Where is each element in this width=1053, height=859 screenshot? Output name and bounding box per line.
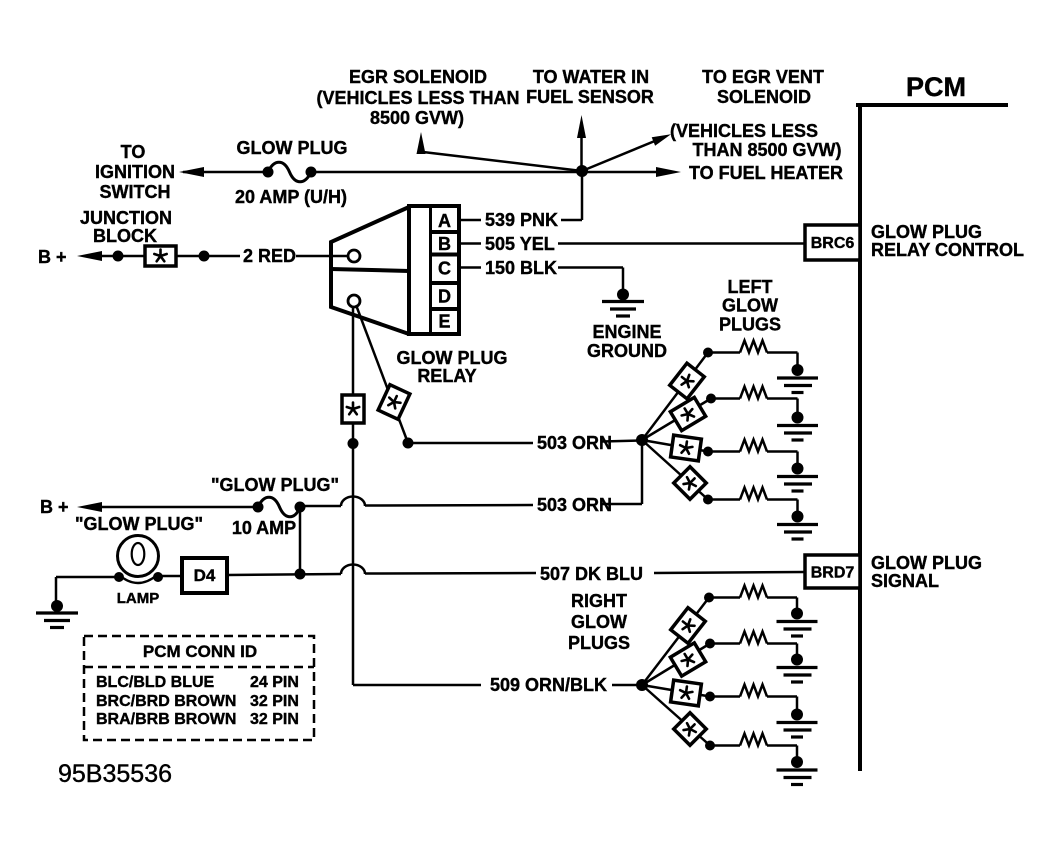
lamp (118, 536, 159, 577)
glow plug R4 (705, 741, 715, 751)
ground lamp (51, 600, 63, 612)
wire pin C 150 BLK (459, 266, 481, 269)
svg-text:EGR SOLENOID: EGR SOLENOID (349, 67, 487, 87)
wire fan right 1 (642, 598, 709, 686)
node main junction (576, 165, 588, 177)
fuse 20 AMP (263, 167, 274, 178)
svg-text:RELAY CONTROL: RELAY CONTROL (871, 240, 1024, 260)
fusible link L2 (670, 397, 705, 430)
ground R3 (791, 709, 803, 721)
wire riser from relay lower terminal (352, 307, 355, 685)
arrowhead to fuel heater (656, 167, 681, 177)
ground R2 (791, 654, 803, 666)
arrowhead B+ (77, 251, 102, 261)
wire diagonal from relay lower terminal (356, 305, 408, 443)
wire fuse down to D4 wire (299, 507, 302, 574)
ground L1 (792, 364, 804, 376)
fusible link L4 (674, 467, 707, 500)
engine ground (617, 289, 629, 301)
fusible link R3 (671, 680, 702, 706)
fusible link on riser (342, 395, 364, 423)
wire 503 ORN upper (408, 442, 533, 445)
wire 2 RED feed (100, 255, 240, 258)
node right fan (636, 679, 648, 691)
svg-text:B +: B + (38, 247, 67, 267)
svg-text:TO EGR VENT: TO EGR VENT (702, 67, 824, 87)
svg-text:IGNITION: IGNITION (95, 162, 175, 182)
fusible link R4 (674, 713, 707, 746)
fuse 10 AMP (253, 502, 264, 513)
fusible link L1 (670, 363, 705, 399)
svg-text:8500 GVW): 8500 GVW) (370, 108, 464, 128)
wire riser to left fan node (641, 440, 644, 504)
wire arrow to EGR vent solenoid (582, 141, 656, 172)
glow plug relay body (331, 207, 409, 334)
svg-text:THAN 8500 GVW): THAN 8500 GVW) (692, 140, 841, 160)
svg-text:507 DK BLU: 507 DK BLU (540, 564, 643, 584)
svg-text:BLC/BLD BLUE: BLC/BLD BLUE (96, 674, 215, 691)
svg-text:505 YEL: 505 YEL (485, 234, 555, 254)
fusible link R1 (671, 608, 706, 644)
svg-text:32 PIN: 32 PIN (250, 693, 299, 710)
svg-text:SWITCH: SWITCH (100, 182, 171, 202)
svg-text:RELAY: RELAY (417, 366, 476, 386)
ground R4 (791, 756, 803, 768)
svg-text:PLUGS: PLUGS (568, 633, 630, 653)
wire fan right 3 (642, 685, 710, 697)
svg-text:(VEHICLES LESS: (VEHICLES LESS (670, 121, 818, 141)
svg-text:A: A (438, 211, 451, 231)
wire arrow up to water-in-fuel sensor (580, 136, 583, 171)
svg-text:D: D (438, 287, 451, 307)
svg-text:B +: B + (40, 497, 69, 517)
svg-text:150 BLK: 150 BLK (485, 258, 557, 278)
relay terminal circle upper (348, 250, 360, 262)
svg-text:PLUGS: PLUGS (719, 315, 781, 335)
wire fan right 4 (642, 685, 710, 746)
junction block fusible link (145, 246, 176, 266)
svg-text:C: C (438, 259, 451, 279)
node dot (113, 251, 124, 262)
svg-text:SIGNAL: SIGNAL (871, 571, 939, 591)
PCM bracket (856, 103, 1008, 107)
connector BRD7 (805, 555, 860, 588)
arrowhead to ignition switch (179, 167, 204, 177)
wire 509 ORN/BLK (353, 684, 481, 687)
svg-text:PCM CONN ID: PCM CONN ID (143, 642, 257, 661)
svg-text:BRD7: BRD7 (811, 565, 855, 582)
wire pin A 539 PNK (459, 219, 481, 222)
node left fan (636, 434, 648, 446)
svg-text:TO: TO (121, 142, 146, 162)
svg-text:JUNCTION: JUNCTION (80, 208, 172, 228)
fusible link L3 (671, 435, 702, 461)
svg-text:539 PNK: 539 PNK (485, 210, 558, 230)
wire lamp to ground (56, 576, 119, 579)
svg-text:24 PIN: 24 PIN (250, 674, 299, 691)
svg-text:RIGHT: RIGHT (571, 591, 627, 611)
ground L4 (792, 511, 804, 523)
svg-text:FUEL SENSOR: FUEL SENSOR (526, 87, 654, 107)
wire hop over riser (341, 497, 365, 507)
connector BRC6 (805, 225, 860, 260)
svg-text:"GLOW PLUG": "GLOW PLUG" (211, 475, 339, 495)
PCM CONN ID table (84, 636, 314, 740)
wire arrow to EGR solenoid (423, 152, 582, 171)
svg-text:509 ORN/BLK: 509 ORN/BLK (490, 675, 607, 695)
svg-text:"GLOW PLUG": "GLOW PLUG" (75, 514, 203, 534)
svg-text:10 AMP: 10 AMP (232, 518, 296, 538)
svg-text:BRC6: BRC6 (811, 235, 855, 252)
svg-text:GLOW PLUG: GLOW PLUG (871, 553, 982, 573)
svg-text:GLOW PLUG: GLOW PLUG (871, 222, 982, 242)
glow plug R1 (704, 593, 714, 603)
fusible link on diagonal (378, 385, 410, 420)
ground L3 (792, 463, 804, 475)
glow plug L3 (703, 447, 713, 457)
glow plug R2 (705, 639, 715, 649)
svg-text:(VEHICLES LESS THAN: (VEHICLES LESS THAN (316, 88, 519, 108)
svg-text:BLOCK: BLOCK (93, 226, 157, 246)
node dot (199, 251, 210, 262)
svg-text:BRC/BRD BROWN: BRC/BRD BROWN (96, 693, 236, 710)
wire B+ to 10A fuse (98, 506, 258, 509)
wire fan left 2 (642, 399, 711, 441)
wire fan left 4 (642, 440, 708, 500)
svg-text:95B35536: 95B35536 (58, 760, 172, 788)
svg-text:SOLENOID: SOLENOID (717, 87, 811, 107)
wire pin B 505 YEL (459, 242, 481, 245)
wire 503 ORN lower (300, 505, 341, 508)
wire 507 DK BLU (227, 574, 341, 575)
svg-text:TO FUEL HEATER: TO FUEL HEATER (689, 163, 843, 183)
node dot 503 ORN start (403, 438, 414, 449)
svg-text:LEFT: LEFT (728, 277, 773, 297)
svg-text:GLOW: GLOW (571, 612, 627, 632)
svg-text:2 RED: 2 RED (243, 246, 296, 266)
svg-text:GLOW PLUG: GLOW PLUG (397, 348, 508, 368)
svg-text:GLOW PLUG: GLOW PLUG (237, 138, 348, 158)
relay terminal circle lower (348, 295, 360, 307)
wire ignition feed (183, 171, 268, 174)
svg-text:503 ORN: 503 ORN (537, 433, 612, 453)
svg-text:TO WATER IN: TO WATER IN (533, 67, 649, 87)
wire fan left 1 (642, 353, 708, 441)
fusible link R2 (670, 643, 705, 676)
svg-text:GLOW: GLOW (722, 296, 778, 316)
ground R1 (791, 608, 803, 620)
svg-text:20 AMP (U/H): 20 AMP (U/H) (235, 187, 347, 207)
glow plug R3 (705, 692, 715, 702)
connector D4 (182, 558, 227, 593)
svg-text:ENGINE: ENGINE (592, 322, 661, 342)
svg-text:B: B (438, 234, 451, 254)
wire fan right 2 (642, 644, 710, 686)
wire fan left 3 (642, 440, 708, 452)
node dot on riser (348, 438, 359, 449)
svg-text:GROUND: GROUND (587, 341, 667, 361)
svg-text:D4: D4 (194, 566, 216, 585)
svg-text:BRA/BRB BROWN: BRA/BRB BROWN (96, 711, 236, 728)
svg-text:E: E (438, 312, 450, 332)
wire lamp to D4 (158, 575, 182, 578)
svg-text:LAMP: LAMP (117, 590, 160, 607)
svg-text:PCM: PCM (906, 72, 966, 102)
svg-text:32 PIN: 32 PIN (250, 711, 299, 728)
glow plug L2 (706, 394, 716, 404)
ground L2 (792, 412, 804, 424)
svg-text:503 ORN: 503 ORN (537, 495, 612, 515)
glow plug L1 (703, 348, 713, 358)
glow plug L4 (703, 495, 713, 505)
